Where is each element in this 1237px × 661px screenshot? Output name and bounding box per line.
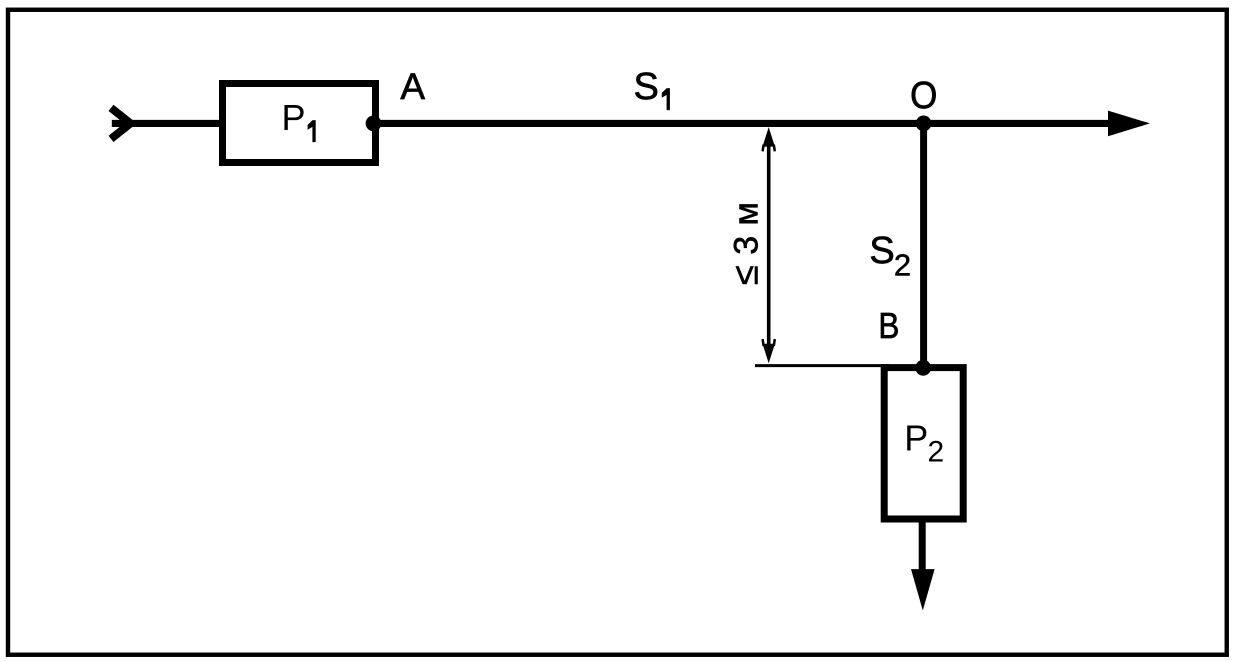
node O: [916, 116, 932, 132]
wire S1: node A to node O and beyond: [373, 120, 1109, 127]
svg-text:B: B: [878, 305, 899, 346]
svg-text:P: P: [904, 418, 928, 459]
svg-text:A: A: [400, 66, 425, 107]
node A: [366, 116, 382, 132]
svg-text:P: P: [282, 97, 306, 138]
wire S2: node O to node B: [920, 123, 927, 368]
outgoing arrowhead (right): [1108, 111, 1150, 137]
dimension line ≤ 3 m (vertical with arrowheads): [763, 127, 775, 363]
device P2: [884, 368, 963, 519]
svg-text:≤ 3 м: ≤ 3 м: [725, 202, 766, 285]
device P1: [223, 84, 376, 163]
dimension extension line at B level: [755, 364, 889, 367]
node B: [915, 360, 931, 376]
incoming supply arrow (chevron): [111, 108, 131, 139]
svg-text:2: 2: [928, 435, 945, 468]
svg-text:2: 2: [894, 248, 911, 283]
output arrowhead (down): [911, 569, 935, 610]
wire: supply to P1: [112, 120, 223, 127]
svg-text:S: S: [634, 66, 659, 108]
output wire from P2: [919, 520, 926, 572]
svg-text:S: S: [869, 230, 894, 272]
svg-text:O: O: [910, 75, 937, 117]
